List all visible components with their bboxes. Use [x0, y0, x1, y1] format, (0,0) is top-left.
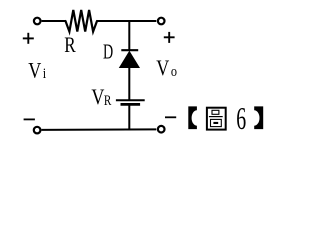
svg-text:V: V: [28, 59, 41, 83]
svg-text:V: V: [91, 85, 104, 109]
svg-text:R: R: [64, 33, 76, 58]
battery VR (long positive plate): [116, 99, 145, 101]
polarity - (output side): [165, 116, 176, 118]
wire (bottom rail: T3 to T4): [42, 128, 157, 131]
terminal T1 (input +, top-left, open circle): [34, 18, 41, 25]
svg-text:6: 6: [236, 100, 246, 136]
terminal T4 (output -, bottom-right, open circle): [158, 126, 165, 133]
svg-text:i: i: [43, 65, 47, 81]
svg-text:V: V: [156, 56, 169, 80]
battery VR (short thick negative plate): [121, 103, 141, 106]
diode D1 (triangle, anode below pointing up): [120, 51, 140, 67]
wire (battery - plate down to node B on bottom wire): [128, 105, 130, 130]
resistor R1 zigzag: [66, 10, 98, 32]
diode D1 (cathode bar): [121, 49, 138, 51]
caption character Tu (Chinese: figure) drawn as strokes: [207, 108, 226, 130]
terminal T3 (input -, bottom-left, open circle): [34, 127, 41, 134]
caption bracket left (black lenticular bracket of figure caption): [188, 106, 197, 129]
polarity + (output side): [164, 36, 175, 38]
polarity - (input side): [24, 118, 35, 120]
svg-text:o: o: [171, 63, 177, 79]
wire (diode anode down to battery + plate): [128, 67, 130, 100]
wire (top: resistor to node A and to T2): [97, 20, 156, 22]
wire (top-left: T1 to resistor): [42, 20, 66, 22]
wire (node A down to diode cathode): [128, 20, 130, 50]
polarity + (input side): [23, 37, 34, 39]
caption bracket right (black lenticular bracket of figure caption): [254, 106, 263, 129]
svg-text:D: D: [103, 40, 113, 63]
terminal T2 (output +, top-right, open circle): [158, 18, 165, 25]
svg-text:R: R: [104, 91, 112, 108]
